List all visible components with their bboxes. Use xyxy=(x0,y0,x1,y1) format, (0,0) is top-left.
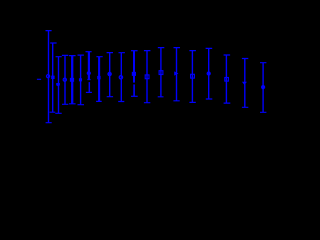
errorbar 16 xyxy=(206,48,213,99)
errorbar 11 upper xyxy=(131,51,138,83)
errorbar 10 xyxy=(118,53,125,102)
errorbar 13 xyxy=(158,48,165,97)
errorbar 11 lower xyxy=(131,84,138,96)
errorbar 9 xyxy=(107,53,114,97)
errorbar 4 xyxy=(62,55,68,104)
errorbar 3 xyxy=(55,57,61,114)
errorbar 8 xyxy=(96,57,103,102)
errorbar 7 upper xyxy=(86,52,92,80)
errorbar 18 xyxy=(242,59,248,108)
errorbar 7 lower xyxy=(86,82,92,92)
errorbar 5 xyxy=(69,56,76,104)
errorbar 19 xyxy=(260,63,266,113)
errorbar 14 xyxy=(173,48,180,101)
errorbar 17 xyxy=(224,55,231,103)
errorbar 12 xyxy=(144,51,151,103)
errorbar 2 xyxy=(50,43,57,112)
errorbar 6 xyxy=(78,55,85,105)
point 0 dash marker xyxy=(37,78,41,80)
errorbar 1 xyxy=(46,31,52,123)
errorbar 15 xyxy=(189,51,196,103)
